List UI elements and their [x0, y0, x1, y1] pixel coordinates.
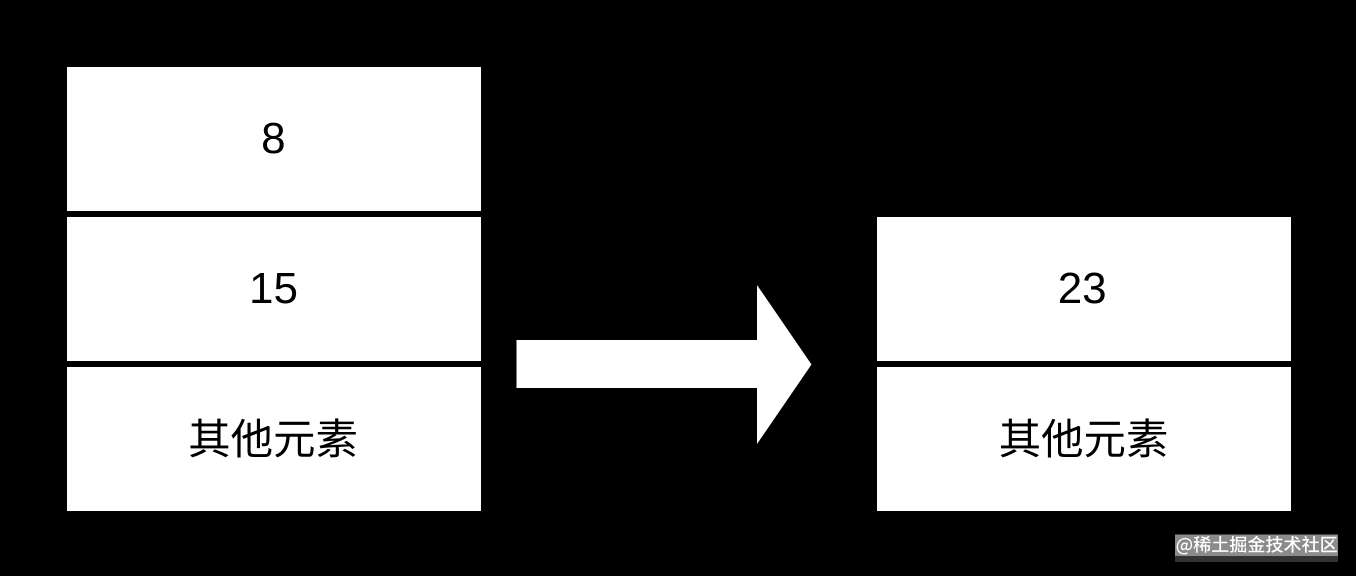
right stack cell 1: [877, 217, 1291, 361]
watermark band shadow: [1175, 556, 1338, 562]
label: other elements (left): [190, 418, 356, 457]
left stack cell 3: [67, 367, 481, 511]
watermark band: [1175, 535, 1338, 557]
right stack cell 2: [877, 367, 1291, 511]
value 15: [249, 267, 298, 311]
left stack cell 1: [67, 67, 481, 211]
watermark: [1177, 536, 1337, 555]
value 23: [1058, 267, 1107, 311]
arrow: [517, 285, 812, 444]
left stack cell 2: [67, 217, 481, 361]
value 8: [261, 117, 285, 161]
label: other elements (right): [1001, 418, 1167, 457]
